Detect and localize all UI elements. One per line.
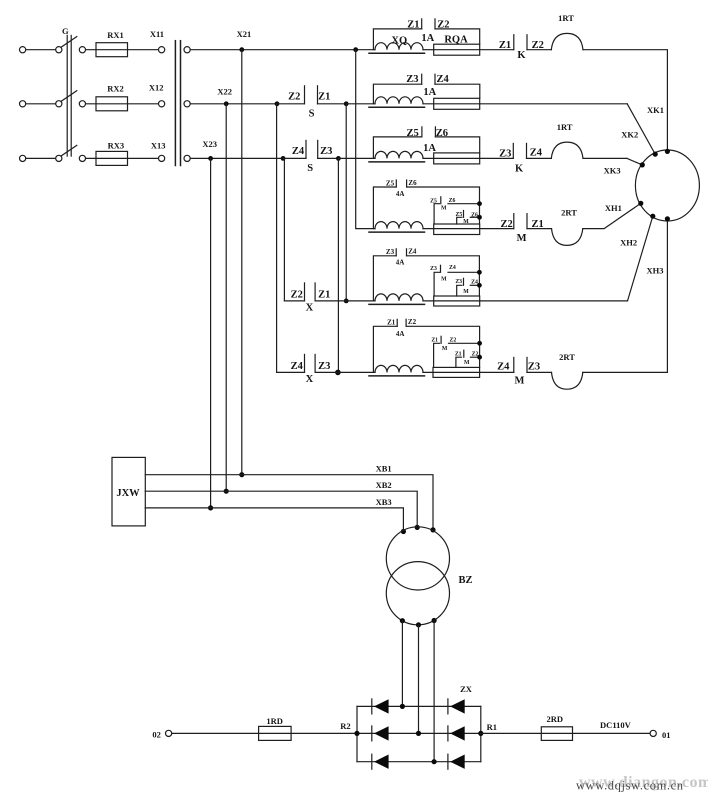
svg-text:Z6: Z6: [408, 179, 417, 187]
feeder row2 to row5: [345, 104, 347, 301]
reactor core row2: [369, 106, 425, 108]
wire secondary a to bridge: [401, 621, 403, 707]
switch G pole 3 left contact: [56, 155, 62, 161]
svg-text:XQ: XQ: [391, 36, 407, 47]
svg-text:Z4: Z4: [497, 362, 510, 373]
svg-text:M: M: [463, 289, 469, 295]
svg-text:X12: X12: [149, 83, 164, 93]
node X21: [239, 47, 244, 52]
tap contact 1 row4: [434, 204, 439, 224]
bridge row top wire: [357, 705, 481, 707]
svg-text:Z1: Z1: [318, 92, 330, 103]
switch G pole 1 left contact: [56, 47, 62, 53]
reactor coil row3: [375, 151, 423, 158]
wire row6 through box: [423, 371, 514, 373]
svg-text:www.dqjsw.com.cn: www.dqjsw.com.cn: [576, 779, 684, 793]
reactor XQ coil row1: [375, 43, 423, 50]
svg-text:Z5: Z5: [430, 198, 437, 204]
wire X21 drop: [241, 50, 243, 475]
svg-text:1A: 1A: [421, 33, 434, 44]
svg-text:RX3: RX3: [108, 140, 125, 150]
node transformer primary a: [401, 529, 406, 534]
junction XB1: [239, 472, 244, 477]
parallel branch row2 to X contact row6: [276, 104, 278, 373]
junction tap1 row5: [477, 270, 482, 275]
motor stator circle: [635, 150, 699, 221]
node transformer primary b: [415, 525, 420, 530]
bus wire XB2: [145, 491, 417, 527]
svg-text:4A: 4A: [396, 190, 405, 198]
svg-text:1RD: 1RD: [266, 716, 283, 726]
terminal X13: [159, 155, 165, 161]
svg-text:XB2: XB2: [376, 480, 392, 490]
node transformer secondary a: [400, 618, 405, 623]
terminal X23 side circle row3: [184, 155, 190, 161]
bus wire XB1: [145, 475, 433, 530]
svg-text:2RD: 2RD: [547, 714, 564, 724]
feeder row3 to row6: [337, 158, 339, 372]
svg-text:Z6: Z6: [471, 212, 478, 218]
SEC_MID: [112, 50, 473, 762]
wire row3 through box: [423, 157, 513, 159]
diode D2: [447, 699, 449, 714]
svg-text:S: S: [307, 163, 313, 174]
svg-text:K: K: [515, 164, 524, 175]
svg-text:Z5: Z5: [406, 128, 418, 139]
junction row5 left: [344, 299, 349, 304]
svg-text:1A: 1A: [423, 143, 436, 154]
svg-text:Z1: Z1: [431, 338, 438, 344]
junction tap2 row6: [477, 355, 482, 360]
fuse RX2: [96, 97, 128, 111]
wire XH2 diagonal: [628, 216, 653, 301]
wire pole3 to fuse RX3: [86, 157, 159, 159]
svg-text:Z3: Z3: [499, 148, 511, 159]
thermal element 1RT row3: [551, 142, 583, 158]
node XK1: [665, 149, 670, 154]
wire row1 through box: [434, 49, 514, 51]
transformer BZ primary winding: [386, 527, 449, 590]
svg-text:Z5: Z5: [456, 212, 463, 218]
svg-text:Z3: Z3: [320, 146, 332, 157]
svg-text:BZ: BZ: [458, 575, 472, 586]
svg-text:1A: 1A: [423, 87, 436, 98]
svg-text:Z1: Z1: [455, 351, 462, 357]
bypass branch row6: [373, 326, 397, 372]
wire L1: [26, 49, 56, 51]
svg-text:X: X: [306, 303, 314, 314]
terminal X21 side circle row1: [184, 47, 190, 53]
svg-text:RX1: RX1: [107, 30, 124, 40]
svg-text:JXW: JXW: [116, 488, 140, 499]
wire pole2 to fuse RX2: [86, 103, 159, 105]
wire row4 contact to 2RT: [527, 228, 552, 230]
svg-text:RQA: RQA: [444, 34, 468, 45]
relay box JXW: [112, 457, 145, 526]
wire bridge to O1: [481, 732, 650, 734]
contact M row4 bars: [513, 214, 515, 229]
junction S contact right row2: [344, 101, 349, 106]
bus wire XB3: [145, 508, 403, 532]
wire X23 drop: [210, 158, 212, 508]
bypass branch row3: [373, 137, 422, 159]
svg-text:XK3: XK3: [604, 166, 621, 176]
contact K row3 bars: [512, 143, 514, 158]
wire row2 to coil: [346, 103, 375, 105]
contact M row6 bars: [513, 357, 515, 372]
bridge row mid wire: [357, 732, 481, 734]
bypass branch row1 right wire: [435, 29, 480, 44]
svg-text:ZX: ZX: [460, 684, 473, 694]
svg-text:Z3: Z3: [386, 248, 395, 256]
junction row6 left: [335, 370, 341, 376]
resistor box row4: [434, 224, 480, 235]
wire row1 main: [190, 49, 375, 51]
reactor coil row2: [375, 97, 423, 104]
node XK3: [640, 162, 645, 167]
reactor coil row6: [375, 365, 423, 372]
switch G pole 2 right contact: [79, 101, 85, 107]
diode D1: [371, 699, 373, 714]
node XH1: [638, 201, 643, 206]
wire row4 to XH1 diagonal: [583, 203, 641, 228]
isolation double bars: [174, 41, 176, 166]
contact X row6: [277, 371, 305, 373]
thermal element 1RT row1: [551, 33, 583, 49]
svg-text:X22: X22: [217, 86, 232, 96]
tap contact 1 row5: [434, 272, 439, 296]
source terminal L3: [20, 155, 26, 161]
parallel branch row3 to X contact row5: [283, 158, 285, 301]
tap contact 2 row6: [456, 357, 462, 367]
switch G pole 2 blade: [61, 91, 77, 102]
svg-text:M: M: [514, 375, 524, 386]
reactor coil row5: [375, 294, 423, 301]
contact S row3: [283, 157, 306, 159]
junction XB2: [224, 489, 229, 494]
node XH2: [650, 214, 655, 219]
wire X22 drop: [225, 104, 227, 491]
resistor box row3: [434, 153, 480, 164]
bridge row bottom wire: [357, 761, 481, 763]
svg-text:Z2: Z2: [500, 219, 512, 230]
wire row2 main left: [190, 103, 277, 105]
wire secondary b to bridge: [418, 625, 420, 734]
fuse 1RD: [259, 726, 292, 740]
contact S row2: [277, 103, 305, 105]
svg-text:1RT: 1RT: [557, 122, 573, 132]
svg-text:DC110V: DC110V: [600, 720, 632, 730]
svg-text:01: 01: [662, 730, 671, 740]
junction tap1 row4: [477, 201, 482, 206]
svg-text:M: M: [464, 360, 470, 366]
svg-text:XB3: XB3: [376, 497, 392, 507]
svg-text:R1: R1: [487, 722, 497, 732]
terminal O1: [650, 730, 656, 736]
diode D5: [371, 754, 373, 769]
svg-text:2RT: 2RT: [561, 208, 577, 218]
junction tap2 row4: [477, 215, 482, 220]
svg-text:Z4: Z4: [471, 279, 478, 285]
svg-text:Z4: Z4: [291, 361, 304, 372]
reactor coil row4: [375, 222, 423, 229]
svg-text:G: G: [62, 26, 69, 36]
wire L3: [26, 157, 56, 159]
junction XB3: [208, 505, 213, 510]
wire row1 to motor corner: [583, 50, 667, 152]
svg-text:XK2: XK2: [621, 130, 638, 140]
svg-text:Z3: Z3: [406, 74, 418, 85]
resistor box RQA row1: [434, 44, 480, 55]
svg-text:M: M: [517, 233, 527, 244]
svg-text:X23: X23: [202, 139, 217, 149]
svg-text:Z3: Z3: [528, 362, 540, 373]
source terminal L1: [20, 47, 26, 53]
wire row5 through box: [423, 300, 480, 302]
fuse RX3: [96, 151, 128, 165]
wire row3 to coil: [338, 157, 375, 159]
wire row6 to XH3 riser: [583, 219, 668, 373]
source terminal L2: [20, 101, 26, 107]
svg-text:XH1: XH1: [605, 203, 622, 213]
svg-text:Z4: Z4: [530, 148, 543, 159]
resistor box row6: [433, 367, 480, 377]
junction phase c bottom row: [432, 759, 437, 764]
svg-text:Z5: Z5: [386, 179, 395, 187]
wire row3 contact to 1RT: [527, 157, 552, 159]
contact X row5: [284, 300, 304, 302]
bypass branch row1 wire: [373, 29, 421, 50]
switch G linkage bar: [66, 35, 68, 156]
wire XK2 diagonal: [627, 104, 655, 154]
junction phase b mid row: [416, 731, 421, 736]
svg-text:XB1: XB1: [376, 464, 392, 474]
wire row6 contact to 2RT: [527, 371, 552, 373]
node X22: [224, 101, 229, 106]
bridge left rail: [356, 706, 358, 761]
fuse 2RD: [541, 727, 572, 741]
svg-text:M: M: [441, 205, 447, 211]
wire row3 to bend: [583, 157, 627, 159]
resistor box row5: [434, 296, 480, 306]
svg-text:Z1: Z1: [318, 289, 330, 300]
svg-text:2RT: 2RT: [559, 352, 575, 362]
terminal O2: [166, 730, 172, 736]
transformer BZ secondary winding: [386, 562, 449, 625]
switch G pole 3 blade: [61, 145, 77, 156]
bridge right rail: [480, 706, 482, 761]
reactor core row3: [369, 161, 425, 163]
node transformer primary c: [430, 527, 435, 532]
switch G pole 1 blade: [61, 37, 77, 48]
svg-text:02: 02: [152, 730, 161, 740]
svg-text:X11: X11: [150, 29, 164, 39]
svg-text:Z2: Z2: [408, 318, 417, 326]
svg-text:Z2: Z2: [450, 338, 457, 344]
node XH3: [665, 216, 670, 221]
tap contact 2 row5: [457, 285, 462, 296]
contact Z2 bar right row1: [434, 19, 436, 29]
bypass branch row2: [373, 84, 421, 104]
svg-text:Z4: Z4: [449, 265, 456, 271]
svg-text:Z2: Z2: [291, 289, 303, 300]
wire row5 box to bend: [480, 300, 628, 302]
thermal element 2RT row6: [552, 372, 583, 389]
feeder row1 to row4: [356, 50, 375, 229]
wire row4 through box: [423, 228, 514, 230]
wire row1 contact to 1RT: [527, 49, 551, 51]
switch G pole 1 right contact: [79, 47, 85, 53]
junction row1 to row4 feeder: [353, 47, 358, 52]
svg-text:Z3: Z3: [430, 266, 437, 272]
svg-text:XH3: XH3: [647, 265, 664, 275]
svg-text:4A: 4A: [396, 330, 405, 338]
svg-text:Z4: Z4: [292, 146, 305, 157]
node transformer secondary c: [432, 618, 437, 623]
node X23: [208, 156, 213, 161]
svg-text:R2: R2: [340, 721, 350, 731]
svg-text:M: M: [441, 276, 447, 282]
wire pole1 to fuse RX1: [86, 49, 159, 51]
junction phase a top row: [400, 704, 405, 709]
reactor core row6: [369, 375, 425, 377]
junction S contact right row3: [336, 156, 341, 161]
svg-text:Z4: Z4: [436, 74, 449, 85]
switch G pole 2 left contact: [56, 101, 62, 107]
svg-text:XH2: XH2: [620, 237, 637, 247]
resistor box row2: [434, 98, 480, 109]
terminal X22 side circle row2: [184, 101, 190, 107]
wire L2: [26, 103, 56, 105]
terminal X11: [159, 47, 165, 53]
svg-text:XK1: XK1: [647, 105, 664, 115]
svg-text:Z3: Z3: [318, 361, 330, 372]
terminal X12: [159, 101, 165, 107]
svg-text:Z1: Z1: [407, 20, 419, 31]
wire row6 to coil: [338, 371, 375, 373]
svg-text:S: S: [309, 108, 315, 119]
svg-text:X21: X21: [237, 29, 252, 39]
junction tap1 row6: [477, 341, 482, 346]
diode D4: [447, 726, 449, 741]
SEC_INPUT: [20, 26, 191, 166]
junction S contact left row2: [275, 101, 280, 106]
svg-text:Z2: Z2: [288, 92, 300, 103]
thermal element 2RT row4: [552, 229, 583, 246]
wire O2 to bridge: [172, 732, 357, 734]
svg-text:Z1: Z1: [387, 319, 396, 327]
junction S contact left row3: [281, 156, 286, 161]
svg-text:K: K: [517, 50, 526, 61]
junction bridge left: [354, 731, 359, 736]
switch G pole 3 right contact: [79, 155, 85, 161]
svg-text:1RT: 1RT: [558, 13, 574, 23]
wire row2 box to bend: [480, 103, 627, 105]
svg-text:4A: 4A: [396, 259, 405, 267]
SEC_BOTTOM: [152, 684, 708, 793]
svg-text:Z6: Z6: [449, 198, 456, 204]
svg-text:X13: X13: [151, 140, 166, 150]
svg-text:Z4: Z4: [408, 248, 417, 256]
contact K row1 bars: [513, 35, 515, 50]
node XK2: [653, 152, 658, 157]
wire row3 main left: [190, 157, 283, 159]
tap contact 1 row6: [434, 343, 440, 367]
svg-text:RX2: RX2: [107, 84, 124, 94]
wire row5 to coil: [346, 300, 375, 302]
svg-text:M: M: [442, 346, 448, 352]
bypass branch row5: [373, 256, 396, 301]
wire row1 coil to box: [423, 49, 434, 51]
reactor core row4: [369, 231, 425, 233]
reactor core row5: [369, 303, 425, 305]
tap contact 2 row4: [457, 217, 462, 224]
wire row2 through box: [423, 103, 480, 105]
wire XK3 diagonal: [627, 158, 642, 165]
fuse RX1: [96, 43, 128, 57]
svg-text:X: X: [306, 374, 314, 385]
wire secondary c to bridge: [433, 621, 435, 762]
diode D3: [371, 726, 373, 741]
bypass branch row4: [373, 187, 396, 229]
svg-text:Z3: Z3: [455, 279, 462, 285]
SEC_ROWS: [190, 13, 699, 389]
svg-text:Z1: Z1: [499, 40, 511, 51]
svg-text:M: M: [463, 219, 469, 225]
node transformer secondary b: [416, 622, 421, 627]
junction bridge right: [478, 731, 483, 736]
contact Z1 bar left row1: [421, 19, 423, 29]
junction tap2 row5: [477, 283, 482, 288]
reactor XQ core row1: [369, 52, 425, 54]
diode D6: [447, 754, 449, 769]
